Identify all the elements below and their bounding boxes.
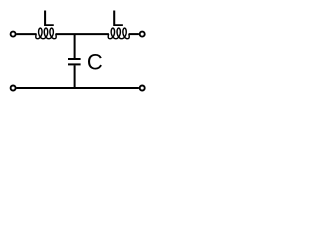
terminal bottom-left <box>11 86 16 91</box>
wire top-left segment <box>16 33 36 35</box>
svg-text:L: L <box>42 6 54 31</box>
capacitor C top plate <box>68 58 81 60</box>
wire top-middle segment <box>56 33 109 35</box>
wire capacitor top stem <box>74 34 76 58</box>
wire capacitor bottom stem <box>74 65 76 88</box>
inductor L2 <box>108 28 129 39</box>
terminal bottom-right <box>140 86 145 91</box>
wire bottom <box>16 87 138 89</box>
terminal top-right <box>140 32 145 37</box>
inductor L1 <box>36 28 56 39</box>
capacitor C bottom plate <box>68 63 81 65</box>
svg-text:C: C <box>87 50 103 75</box>
wire top-right segment <box>129 33 139 35</box>
terminal top-left <box>11 32 16 37</box>
svg-text:L: L <box>111 6 123 31</box>
